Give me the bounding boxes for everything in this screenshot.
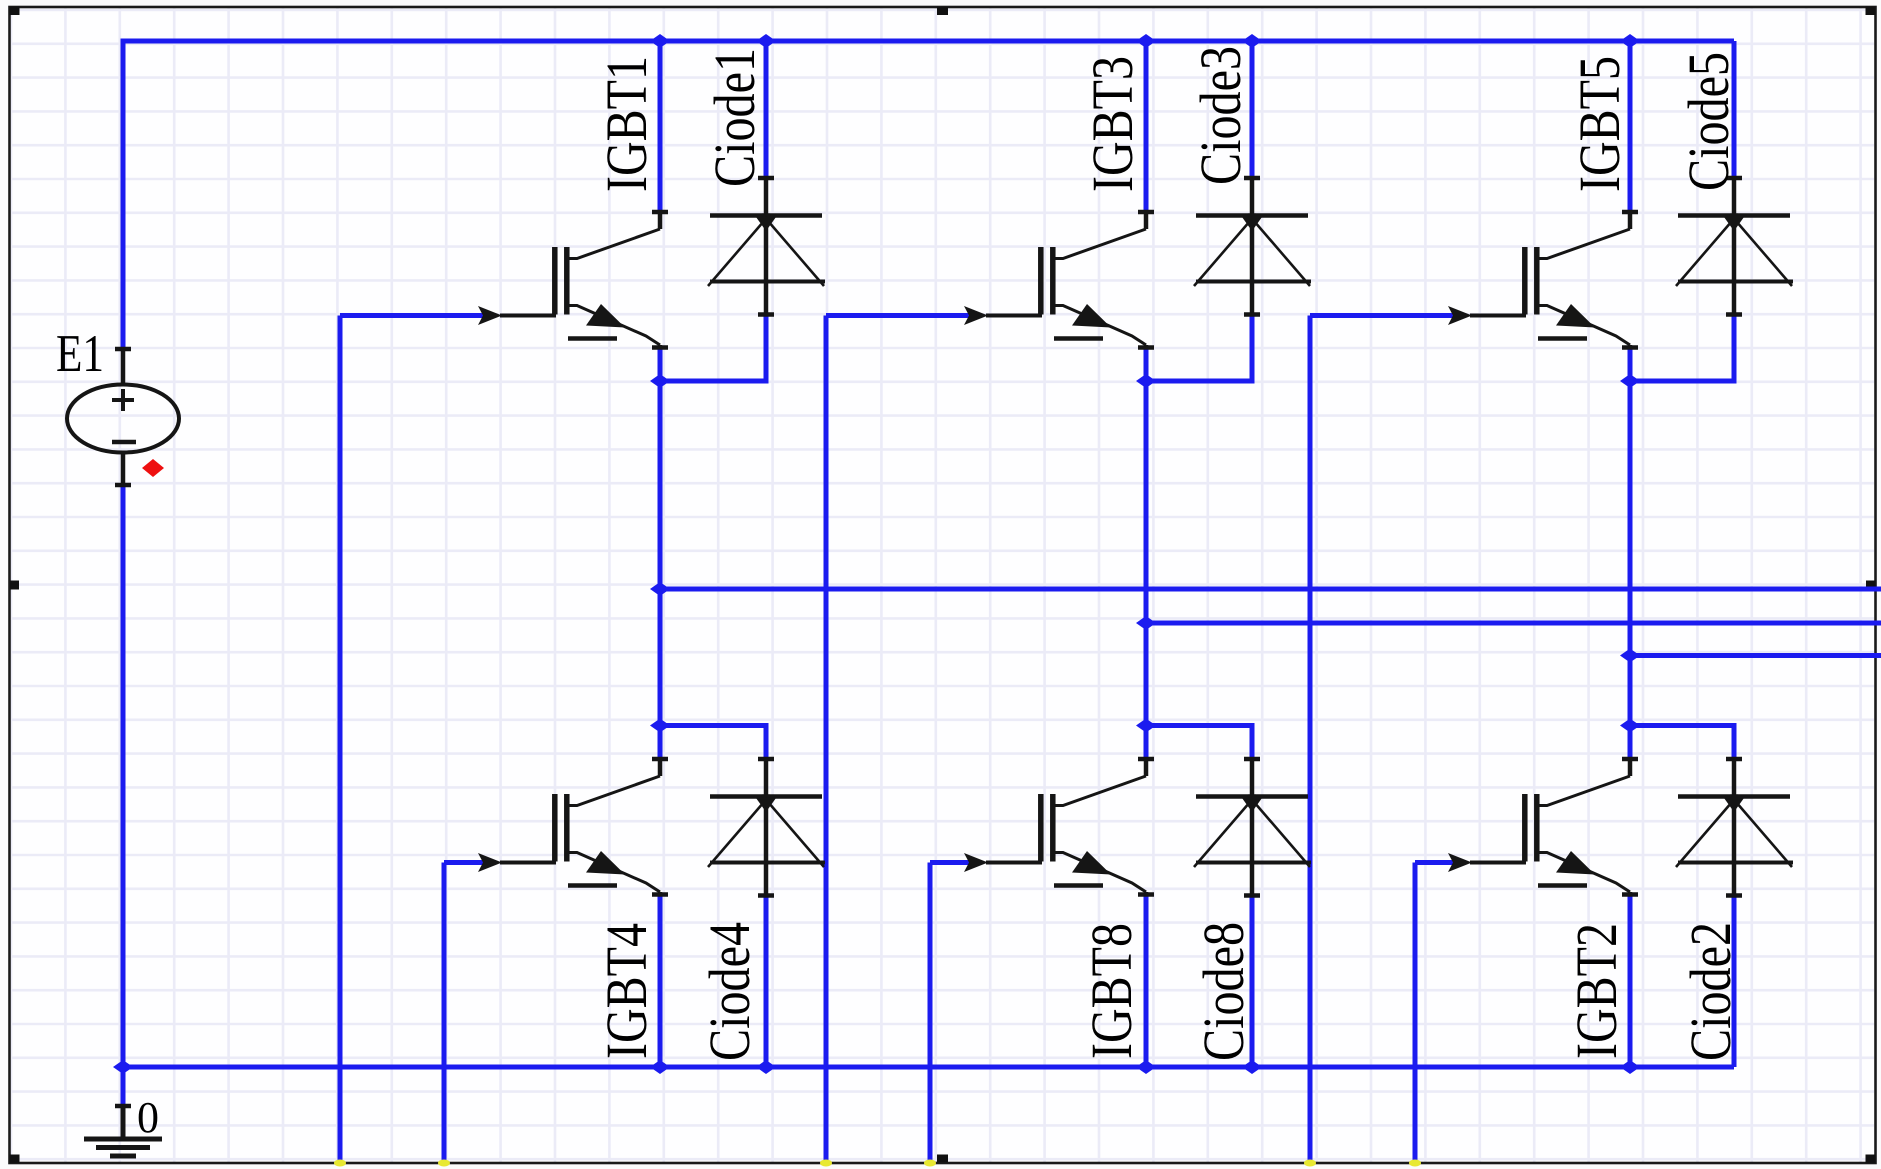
wire Ciode5 cathode from top rail (1732, 41, 1737, 178)
junction leg 1 lower node (650, 719, 670, 733)
wire IGBT4 emitter to bottom rail (658, 895, 663, 1068)
transistor IGBT3 (986, 212, 1154, 348)
svg-text:Ciode5: Ciode5 (1676, 52, 1741, 191)
wire Ciode8 anode to bottom rail (1250, 896, 1255, 1068)
wire IGBT5 emitter to Ciode5 anode jumper (1630, 315, 1734, 382)
junction bottom rail / leg 2 IGBT (1136, 1060, 1156, 1074)
svg-text:Ciode2: Ciode2 (1678, 922, 1743, 1061)
wire IGBT1 gate wire horizontal (340, 313, 486, 318)
wire IGBT8 collector from midpoint (1144, 726, 1149, 760)
junction leg 2 phase tap (1136, 616, 1156, 630)
wire IGBT4 gate wire horizontal (444, 860, 486, 865)
wire IGBT2 gate wire vertical (1413, 863, 1418, 1164)
svg-text:IGBT8: IGBT8 (1079, 923, 1144, 1059)
off-page pin at x=444 (438, 1160, 450, 1167)
diode Ciode2 (1676, 759, 1793, 896)
off-page pin at x=1415 (1409, 1160, 1421, 1167)
junction bottom rail / leg 2 diode (1242, 1060, 1262, 1074)
junction top rail / leg 2 diode (1242, 34, 1262, 48)
diode Ciode3 (1194, 178, 1311, 315)
transistor IGBT5 (1470, 212, 1638, 348)
junction top rail / leg 2 IGBT (1136, 34, 1156, 48)
wire IGBT2 emitter to bottom rail (1628, 895, 1633, 1068)
wire midpoint to Ciode8 cathode jumper (1146, 726, 1252, 760)
wire IGBT5 gate wire horizontal (1310, 313, 1456, 318)
off-page pin at x=1310 (1304, 1160, 1316, 1167)
wire IGBT4 gate wire vertical (442, 863, 447, 1164)
junction leg 1 phase tap (650, 582, 670, 596)
svg-text:Ciode4: Ciode4 (697, 922, 762, 1061)
wire IGBT3 gate wire horizontal (826, 313, 972, 318)
transistor IGBT2 (1470, 759, 1638, 895)
junction leg 1 emitter node (650, 374, 670, 388)
wire IGBT1 collector from top rail (658, 41, 663, 212)
wire midpoint to Ciode2 cathode jumper (1630, 726, 1734, 760)
wire leg 2 midpoint vertical (1144, 348, 1149, 726)
gate arrow of IGBT3 (964, 306, 988, 325)
diode Ciode8 (1194, 759, 1311, 896)
transistor IGBT4 (500, 759, 668, 895)
wire IGBT8 gate wire vertical (928, 863, 933, 1164)
wire midpoint to Ciode4 cathode jumper (660, 726, 766, 760)
junction leg 2 emitter node (1136, 374, 1156, 388)
svg-text:Ciode3: Ciode3 (1188, 46, 1253, 185)
junction bottom rail / leg 1 IGBT (650, 1060, 670, 1074)
diode Ciode1 (708, 178, 825, 315)
gate arrow of IGBT1 (478, 306, 502, 325)
svg-text:IGBT3: IGBT3 (1080, 56, 1145, 192)
wire IGBT4 collector from midpoint (658, 726, 663, 760)
diode Ciode4 (708, 759, 825, 896)
svg-text:Ciode8: Ciode8 (1191, 922, 1256, 1061)
wire left rail lower (E1 to ground) (121, 485, 126, 1106)
junction leg 2 lower node (1136, 719, 1156, 733)
junction top rail / leg 3 IGBT (1620, 34, 1640, 48)
red polarity dot of E1 (142, 459, 164, 477)
junction leg 3 emitter node (1620, 374, 1640, 388)
wire phase output 3 (1630, 653, 1881, 658)
wire leg 3 midpoint vertical (1628, 348, 1633, 726)
junction bottom rail / ground (113, 1060, 133, 1074)
wire Ciode1 cathode from top rail (764, 41, 769, 178)
junction bottom rail / leg 1 diode (756, 1060, 776, 1074)
voltage source E1 (67, 349, 179, 485)
off-page pin at x=930 (924, 1160, 936, 1167)
gate arrow of IGBT2 (1448, 853, 1472, 872)
svg-text:E1: E1 (56, 325, 104, 383)
ground symbol (84, 1106, 162, 1156)
wire IGBT3 emitter to Ciode3 anode jumper (1146, 315, 1252, 382)
diode Ciode5 (1676, 178, 1793, 315)
wire IGBT2 gate wire horizontal (1415, 860, 1456, 865)
svg-text:IGBT4: IGBT4 (594, 923, 659, 1059)
wire phase output 1 (660, 587, 1881, 592)
wire leg 1 midpoint vertical (658, 348, 663, 726)
wire IGBT2 collector from midpoint (1628, 726, 1633, 760)
svg-text:IGBT1: IGBT1 (594, 56, 659, 192)
svg-text:IGBT2: IGBT2 (1564, 923, 1629, 1059)
wire top DC+ rail (123, 39, 1734, 44)
wire Ciode3 cathode from top rail (1250, 41, 1255, 178)
wire left rail upper (E1 to top rail) (121, 39, 126, 350)
wire IGBT1 gate wire vertical (338, 316, 343, 1164)
wire IGBT3 gate wire vertical (824, 316, 829, 1164)
wire IGBT8 emitter to bottom rail (1144, 895, 1149, 1068)
wire IGBT5 collector from top rail (1628, 41, 1633, 212)
transistor IGBT1 (500, 212, 668, 348)
gate arrow of IGBT4 (478, 853, 502, 872)
off-page pin at x=826 (820, 1160, 832, 1167)
wire phase output 2 (1146, 621, 1881, 626)
wire IGBT5 gate wire vertical (1308, 316, 1313, 1164)
svg-text:Ciode1: Ciode1 (702, 48, 767, 187)
junction top rail / leg 1 IGBT (650, 34, 670, 48)
junction leg 3 lower node (1620, 719, 1640, 733)
junction top rail / leg 1 diode (756, 34, 776, 48)
svg-text:IGBT5: IGBT5 (1567, 56, 1632, 192)
transistor IGBT8 (986, 759, 1154, 895)
wire Ciode2 anode to bottom rail (1732, 896, 1737, 1068)
junction leg 3 phase tap (1620, 649, 1640, 663)
wire bottom DC- rail (123, 1065, 1734, 1070)
gate arrow of IGBT8 (964, 853, 988, 872)
gate arrow of IGBT5 (1448, 306, 1472, 325)
junction bottom rail / leg 3 IGBT (1620, 1060, 1640, 1074)
svg-text:0: 0 (137, 1093, 159, 1142)
off-page pin at x=340 (334, 1160, 346, 1167)
wire IGBT8 gate wire horizontal (930, 860, 972, 865)
wire Ciode4 anode to bottom rail (764, 896, 769, 1068)
wire IGBT1 emitter to Ciode1 anode jumper (660, 315, 766, 382)
wire IGBT3 collector from top rail (1144, 41, 1149, 212)
